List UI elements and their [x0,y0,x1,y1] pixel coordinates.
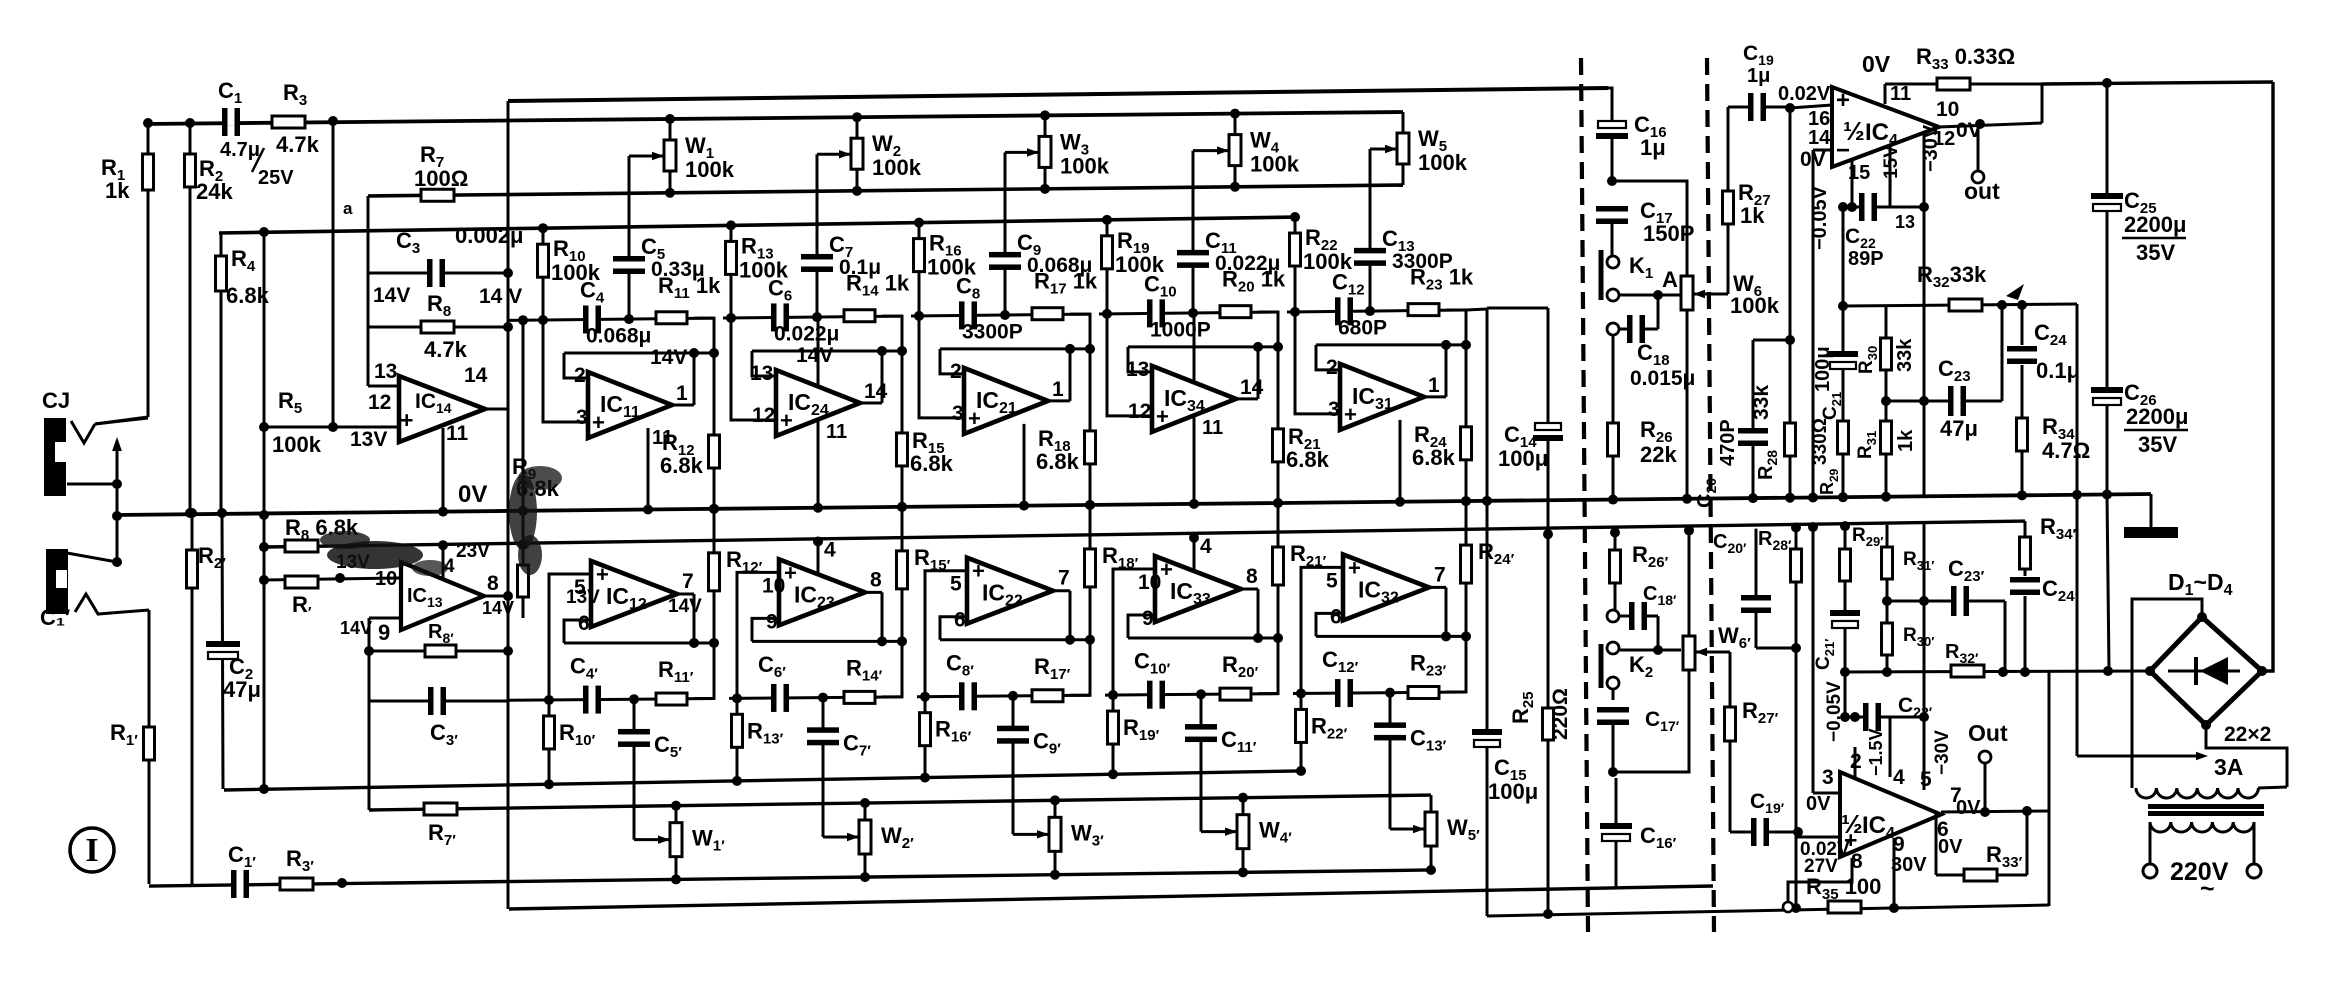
capacitor C7&#x2032; column [822,698,825,837]
svg-text:+: + [400,407,413,433]
capacitor C1 [227,119,236,125]
wire band3' plus input [925,571,967,697]
svg-text:R23 1k: R23 1k [1410,265,1474,294]
wire band3 node line [911,314,1090,316]
svg-text:0V: 0V [1956,797,1981,819]
svg-text:25V: 25V [258,167,294,189]
wire top feedback bus [508,88,1608,101]
node A' wire [1620,649,1681,652]
svg-text:100k: 100k [272,432,322,457]
capacitor C2 47u [220,645,226,655]
svg-text:100k: 100k [1060,153,1110,178]
capacitor C6&#x2032; [776,695,785,701]
svg-text:1: 1 [676,382,688,405]
svg-text:13: 13 [1895,212,1915,232]
svg-text:0.1μ: 0.1μ [2036,358,2080,383]
wire band2 node line [723,316,902,318]
wire C16' upper stem [1615,778,1618,823]
op-amp IC12 [591,561,677,627]
op-amp IC14 [399,376,485,442]
wire IC34 minus/ground column [1193,313,1196,504]
capacitor C13 3300P column [1369,149,1372,311]
svg-text:6.8k: 6.8k [910,451,954,476]
svg-text:−0.05V: −0.05V [1824,681,1845,742]
wire band4' plus input [1113,569,1155,695]
wire IC32 output [1429,586,1446,589]
wire pin13 to IC14 [368,385,399,388]
switch K1 [1607,256,1619,268]
svg-text:+: + [1160,557,1173,582]
wire C19' to IC4' plus [1798,832,1840,837]
svg-text:R35 100: R35 100 [1806,874,1881,903]
out terminal upper [1977,124,1980,171]
resistor R24&#x2032; 6.8k bottom [1465,501,1468,636]
svg-text:24k: 24k [196,179,233,204]
resistor R19 100k [1106,220,1109,314]
wire speaker return to fuse node [2077,755,2198,758]
svg-text:−15V: −15V [1881,145,1902,190]
resistor R13&#x2032; 100k bottom [736,698,739,781]
svg-text:14: 14 [1808,127,1831,149]
wire band2' feedback box [882,641,902,697]
svg-text:I: I [85,832,98,869]
resistor R29' [1840,549,1851,581]
svg-text:10: 10 [375,568,397,590]
wire band2' node line [729,697,902,698]
svg-text:9: 9 [1142,607,1154,630]
wire IC31 ground stub [1399,420,1402,502]
potentiometer W6 100k [1681,276,1693,310]
resistor R11 1k [656,312,687,324]
capacitor C16' [1613,827,1619,837]
wire W5' bottom elbow [1430,846,1433,870]
wire band1 plus input [543,320,588,422]
svg-text:12: 12 [368,391,391,414]
resistor R' [264,578,401,580]
svg-text:35V: 35V [2136,240,2175,265]
capacitor C22' wire [1845,716,1924,719]
svg-text:47μ: 47μ [223,677,261,702]
resistor R20&#x2032; 1k bottom [1220,688,1251,700]
svg-text:13: 13 [750,362,773,385]
resistor R7' on bottom pot bus [424,803,457,815]
ink smudge blobs [327,541,423,569]
potentiometer W1' [671,801,681,811]
out terminal lower [1984,763,1987,815]
op-amp IC32 [1343,554,1429,620]
wire pot-bottom bus (R7 line) [368,185,1403,196]
svg-text:R33 0.33Ω: R33 0.33Ω [1916,44,2015,73]
svg-text:3300P: 3300P [962,320,1023,343]
svg-text:−0.05V: −0.05V [1809,185,1831,250]
capacitor C24 0.1u [2021,305,2024,345]
wire IC4 minus column [1812,150,1815,497]
svg-text:3A: 3A [2214,754,2243,780]
resistor R13 100k [730,225,733,318]
wire band3' feedback box [1070,640,1090,696]
svg-text:10: 10 [1936,98,1959,121]
svg-text:6: 6 [578,612,590,635]
svg-text:D1~D4: D1~D4 [2168,569,2233,599]
resistor R4 / capacitor C2 column [220,233,223,513]
capacitor C16 1u [1609,125,1615,135]
svg-text:10: 10 [1138,571,1161,594]
op-amp IC4 lower [1840,772,1941,857]
capacitor C8&#x2032; [964,693,973,699]
wire IC33 output [1241,588,1258,591]
op-amp IC24 [776,370,860,436]
resistor R17&#x2032; 1k bottom [1032,690,1063,702]
wire IC21 ground stub [1023,424,1026,506]
svg-text:100μ: 100μ [1488,779,1538,804]
resistor R23 1k [1408,304,1439,316]
potentiometer W6' [1688,530,1691,636]
capacitor C17' [1612,689,1615,700]
svg-text:150P: 150P [1643,221,1694,246]
wire right rail down to bridge [2262,82,2273,671]
svg-text:35V: 35V [2138,432,2177,457]
wire IC12 output [677,592,694,595]
wire bottom 100k-resistor bus [224,771,1301,790]
wire band4 feedback box [1258,312,1278,347]
wire IC4' minus column [1812,527,1815,793]
resistor R23&#x2032; 1k bottom [1408,687,1439,699]
capacitor C22 89P [1843,206,1924,209]
wire right bottom supply bus [1487,905,2049,916]
wire 0V bus [117,494,2151,515]
transformer secondary winding [2136,788,2258,798]
wire W5 top elbow [1402,112,1405,133]
svg-text:2: 2 [574,364,586,387]
resistor R12 6.8k [713,353,716,509]
resistor R17 1k [1032,308,1063,320]
wire IC33 supply stub [1193,538,1196,571]
svg-text:11: 11 [446,422,469,445]
svg-text:4.7k: 4.7k [276,132,320,157]
resistor R27' [1729,652,1732,832]
op-amp IC13 [401,562,484,630]
svg-text:4: 4 [824,538,836,561]
wire speaker return column [2076,304,2079,756]
svg-text:3: 3 [1328,398,1340,421]
wire C3 feedback wire [368,272,508,275]
capacitor C12 680P [1340,308,1349,314]
wire bottom pot-bottom bus [149,870,1431,886]
wire band2' plus input [737,572,779,698]
wire bridge bottom via fuse to secondary right [2206,725,2287,787]
jack CJ upper [44,418,66,496]
wire right input rail column [1789,108,1792,498]
wire band5 node line [1287,310,1466,312]
svg-text:4.7k: 4.7k [424,337,468,362]
wire band2 feedback box [882,316,902,351]
svg-text:330Ω: 330Ω [1810,418,1831,465]
resistor R1' [148,610,151,884]
capacitor C4 0.068&#956; [588,316,597,322]
wire band1' feedback box [694,643,714,699]
svg-text:1k: 1k [1895,429,1917,452]
svg-text:Out: Out [1968,720,2008,746]
svg-text:100k: 100k [685,157,735,182]
svg-text:470P: 470P [1717,419,1739,466]
wire R3 junction down to R5 [332,121,335,427]
capacitor C1' on bottom line [236,881,245,887]
svg-text:14V: 14V [668,596,702,617]
svg-text:14V: 14V [373,284,410,307]
dashed boundary line 2 [1707,58,1714,932]
node A [1620,294,1681,297]
wire summing box right vertical [1547,308,1550,914]
op-amp IC34 [1152,366,1236,432]
svg-text:−30V: −30V [1920,124,1942,172]
wire IC11 output [672,404,694,407]
svg-text:out: out [1964,178,2000,204]
wire pin13 stub [1889,147,1892,207]
svg-text:100k: 100k [1418,150,1468,175]
capacitor C6 0.022&#956; [776,314,785,320]
wire bridge top to secondary left [2132,599,2202,788]
capacitor C15 100u [1484,733,1490,743]
capacitor C23' [1887,600,2005,603]
svg-text:14V: 14V [796,344,833,367]
op-amp IC21 [964,368,1048,434]
capacitor C19 1u [1728,106,1790,109]
svg-text:6: 6 [954,609,966,632]
capacitor C8 3300P [964,312,973,318]
capacitor C4&#x2032; [588,697,597,703]
capacitor C7 0.1&#956; column [816,154,819,317]
svg-text:100μ: 100μ [1498,446,1548,471]
capacitor C26 2200u [2107,494,2109,670]
resistor R16 100k [918,223,921,316]
node mid-left junction column [263,232,266,789]
wire band3 feedback box [1070,314,1090,349]
capacitor C20 470P [1752,340,1755,497]
capacitor C18 0.015u [1607,323,1619,335]
wire band4 plus input [1107,314,1152,416]
svg-text:4: 4 [1200,535,1212,558]
wire bottom-most return line [509,886,1713,909]
resistor R33' [1935,812,1938,875]
op-amp IC11 [588,372,672,438]
svg-text:2: 2 [950,360,962,383]
wire IC11 ground stub [647,428,650,510]
svg-text:680P: 680P [1338,316,1387,339]
wire band2 plus input [731,318,776,420]
wire C23' to R32' node [2004,601,2007,672]
wire band5' node line [1293,692,1466,693]
capacitor C3' wire [369,700,508,703]
svg-text:6.8k: 6.8k [660,453,704,478]
wire IC13 left column [368,618,371,810]
wire IC14 pin11 ground stub [442,428,445,512]
transformer core [2148,804,2264,809]
svg-text:13V: 13V [566,587,600,608]
wire pin15 stub [1851,160,1854,207]
wire band4 node line [1099,312,1278,314]
wire IC21 output [1048,399,1070,402]
capacitor C5&#x2032; column [633,699,636,839]
svg-text:6.8k: 6.8k [1286,447,1330,472]
capacitor C21' column [1844,526,1847,717]
svg-text:+: + [784,560,797,585]
wire band5' feedback box [1446,636,1466,692]
wire C19 to IC4 plus [1790,105,1832,108]
potentiometer W5' [1430,795,1433,812]
svg-text:30V: 30V [1891,854,1927,876]
wire plus rail column bottom [1795,832,1798,908]
wire jack2 top contact [67,553,117,562]
wire IC24 minus/ground column [817,317,820,508]
svg-text:9: 9 [766,610,778,633]
resistor R27 1k [1727,107,1730,294]
resistor R7 100R [421,189,454,201]
op-amp IC31 [1340,364,1424,430]
capacitor C20' 470P [1755,529,1758,648]
svg-text:2200μ: 2200μ [2126,404,2188,429]
wire band1 feedback box [694,318,714,353]
wire C16 junction to W6 top [1612,181,1687,276]
svg-text:89P: 89P [1848,248,1884,270]
svg-text:14: 14 [864,380,888,403]
svg-text:½: ½ [1843,116,1865,146]
wire bottom pot-top bus (R7' line) [369,795,1431,810]
potentiometer W3 100k [1040,110,1050,120]
capacitor C18' [1607,610,1619,622]
capacitor C5 0.33&#956; column [628,156,631,319]
svg-text:0.002μ: 0.002μ [455,223,524,248]
svg-text:−1.5V: −1.5V [1866,728,1886,776]
resistor R30 33k [1885,306,1888,401]
svg-text:0V: 0V [1800,148,1826,171]
svg-text:2: 2 [1326,356,1338,379]
potentiometer W1 100k [665,114,675,124]
node input common vertical [116,484,119,562]
op-amp IC33 [1155,556,1241,622]
potentiometer W4 100k [1230,109,1240,119]
resistor R32 33k [1843,304,2077,306]
svg-text:12: 12 [1128,400,1151,423]
resistor R3 [272,116,305,128]
svg-text:+: + [596,562,609,587]
wire C23 to R32 node [2001,305,2004,401]
resistor R35 100 [1828,901,1861,913]
svg-text:11: 11 [826,421,847,443]
svg-text:4.7μ: 4.7μ [220,139,260,161]
resistor R26' 22k [1614,532,1617,610]
wire big-loop left vertical [507,101,510,909]
resistor R22 100k [1294,217,1297,312]
resistor R34' [2024,521,2027,537]
resistor R28' 33k [1795,527,1798,832]
wire band5' plus input [1301,567,1343,693]
resistor R22&#x2032; 100k bottom [1300,693,1303,771]
svg-text:0V: 0V [1806,793,1831,815]
potentiometer W5 100k [1402,112,1405,133]
svg-text:5: 5 [1920,768,1932,791]
resistor R15&#x2032; 6.8k bottom [901,507,904,641]
wire jack sleeve [67,483,117,486]
svg-text:~: ~ [2200,875,2215,903]
svg-text:1: 1 [1428,374,1440,397]
svg-text:4: 4 [1893,766,1905,789]
wire band1' node line [508,699,714,701]
svg-text:A: A [1662,267,1678,292]
svg-text:+: + [968,406,981,431]
svg-text:+: + [972,559,985,584]
svg-text:47μ: 47μ [1940,416,1978,441]
signal direction arrow [116,450,119,484]
switch K2 [1607,642,1619,654]
svg-text:14V: 14V [482,598,514,618]
svg-text:22k: 22k [1640,442,1677,467]
diode symbol inside bridge [2168,670,2240,673]
channel mark I circle [70,828,114,872]
wire IC24 output [860,401,882,404]
svg-text:8: 8 [487,572,499,595]
wire band1' plus input [549,574,591,700]
wire IC13 output [484,595,508,598]
capacitor C3 0.002u [432,270,441,276]
capacitor C12&#x2032; [1340,690,1349,696]
wire band5 feedback box [1446,310,1466,345]
resistor R33 0.33R [1884,84,1887,104]
resistor R21 6.8k [1277,347,1280,503]
potentiometer W2 100k [852,112,862,122]
svg-text:+: + [1836,87,1850,114]
op-amp IC23 [779,559,865,625]
resistor R28 33k [1785,423,1796,456]
wire output rail to right [2042,82,2273,84]
svg-text:a: a [343,199,353,218]
wire jack tip to R1 [71,421,95,443]
capacitor C9 0.068&#956; column [1004,152,1007,315]
svg-text:22×2: 22×2 [2224,723,2271,746]
svg-text:R11 1k: R11 1k [658,273,721,302]
svg-text:14V: 14V [650,346,687,369]
resistor R12&#x2032; 6.8k bottom [713,509,716,643]
capacitor C24' [2024,569,2027,576]
wire summing box top edge [1487,307,1548,310]
resistor R26 22k [1612,335,1615,500]
svg-text:1k: 1k [105,178,130,203]
wire minus30V' column [1923,524,1926,790]
wire IC13 supply stub [442,545,445,580]
resistor R19&#x2032; 100k bottom [1112,695,1115,774]
resistor R21&#x2032; 6.8k bottom [1277,503,1280,638]
svg-text:100k: 100k [872,155,922,180]
resistor R5 100k wire [264,426,399,429]
svg-text:R17 1k: R17 1k [1034,269,1098,298]
svg-text:4.7Ω: 4.7Ω [2042,438,2090,463]
svg-text:0V: 0V [1862,51,1891,77]
potentiometer W3' [1050,795,1060,805]
resistor R10&#x2032; 100k bottom [548,700,551,784]
svg-text:33k: 33k [1894,338,1916,372]
wire lower-mid bus (R8 line) [264,521,2025,547]
svg-text:13: 13 [1126,358,1149,381]
transformer primary winding [2150,822,2254,832]
wire IC34 output [1236,397,1258,400]
wire input / pot-top bus [145,112,1403,124]
jack C1' lower [46,549,68,614]
svg-text:5: 5 [1326,569,1338,592]
potentiometer W2' [860,798,870,808]
capacitor C10 1000P [1152,310,1161,316]
svg-text:+: + [1344,402,1357,427]
svg-text:1μ: 1μ [1747,65,1770,87]
wire IC23 output [865,591,882,594]
